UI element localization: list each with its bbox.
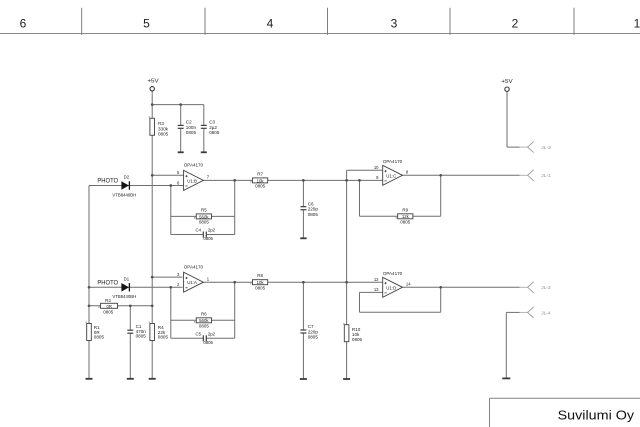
svg-text:+5V: +5V bbox=[147, 79, 158, 85]
svg-text:4: 4 bbox=[267, 17, 274, 31]
svg-text:JL-1: JL-1 bbox=[541, 173, 551, 179]
svg-text:0R: 0R bbox=[107, 304, 113, 309]
svg-text:PHOTO: PHOTO bbox=[97, 279, 118, 286]
svg-text:OPA4170: OPA4170 bbox=[383, 271, 403, 276]
svg-text:0805: 0805 bbox=[203, 236, 213, 241]
svg-text:2p2: 2p2 bbox=[208, 228, 216, 233]
svg-text:0805: 0805 bbox=[203, 340, 213, 345]
svg-text:10: 10 bbox=[374, 165, 379, 170]
svg-text:0805: 0805 bbox=[308, 335, 319, 340]
svg-text:0805: 0805 bbox=[94, 335, 105, 340]
svg-text:13: 13 bbox=[374, 287, 379, 292]
svg-text:R8: R8 bbox=[257, 273, 263, 278]
svg-text:0805: 0805 bbox=[352, 337, 363, 342]
svg-text:1: 1 bbox=[634, 17, 640, 31]
svg-text:OPA4170: OPA4170 bbox=[184, 264, 204, 269]
svg-text:2p2: 2p2 bbox=[208, 331, 216, 336]
svg-text:2: 2 bbox=[512, 17, 519, 31]
svg-text:D2: D2 bbox=[124, 175, 130, 180]
svg-text:R6: R6 bbox=[201, 311, 207, 316]
svg-text:0805: 0805 bbox=[308, 212, 319, 217]
svg-text:5: 5 bbox=[143, 17, 150, 31]
svg-text:0805: 0805 bbox=[255, 285, 266, 290]
svg-text:3: 3 bbox=[391, 17, 398, 31]
svg-text:+5V: +5V bbox=[501, 79, 512, 85]
svg-text:OPA4170: OPA4170 bbox=[383, 159, 403, 164]
svg-text:R5: R5 bbox=[201, 207, 207, 212]
svg-text:6: 6 bbox=[20, 17, 27, 31]
svg-text:JL-4: JL-4 bbox=[541, 310, 551, 316]
svg-text:0805: 0805 bbox=[209, 130, 220, 135]
svg-text:D1: D1 bbox=[124, 276, 130, 281]
svg-text:JL-3: JL-3 bbox=[541, 145, 551, 151]
svg-text:0805: 0805 bbox=[186, 130, 197, 135]
svg-text:U1:C: U1:C bbox=[386, 173, 396, 178]
svg-text:U1:A: U1:A bbox=[187, 280, 197, 285]
svg-text:14: 14 bbox=[406, 282, 411, 287]
svg-text:R9: R9 bbox=[402, 207, 408, 212]
svg-text:U1:B: U1:B bbox=[187, 178, 197, 183]
svg-text:PHOTO: PHOTO bbox=[97, 178, 118, 185]
svg-text:0805: 0805 bbox=[103, 309, 114, 314]
svg-text:C5: C5 bbox=[196, 331, 202, 336]
svg-text:0805: 0805 bbox=[400, 219, 411, 224]
svg-text:JL-2: JL-2 bbox=[541, 285, 551, 291]
svg-text:R7: R7 bbox=[257, 171, 263, 176]
svg-text:0805: 0805 bbox=[158, 335, 169, 340]
svg-text:0805: 0805 bbox=[255, 184, 266, 189]
svg-text:C4: C4 bbox=[196, 228, 202, 233]
svg-text:VTB8440BH: VTB8440BH bbox=[112, 192, 136, 197]
svg-text:R2: R2 bbox=[105, 298, 111, 303]
svg-text:VTB8440BH: VTB8440BH bbox=[112, 294, 136, 299]
svg-text:0805: 0805 bbox=[136, 334, 147, 339]
svg-text:0805: 0805 bbox=[199, 220, 210, 225]
svg-text:OPA4170: OPA4170 bbox=[184, 163, 204, 168]
svg-text:0805: 0805 bbox=[199, 323, 210, 328]
svg-text:Suvilumi Oy: Suvilumi Oy bbox=[558, 408, 635, 423]
svg-text:0805: 0805 bbox=[158, 132, 169, 137]
svg-text:12: 12 bbox=[374, 277, 379, 282]
svg-text:U1:D: U1:D bbox=[386, 285, 396, 290]
